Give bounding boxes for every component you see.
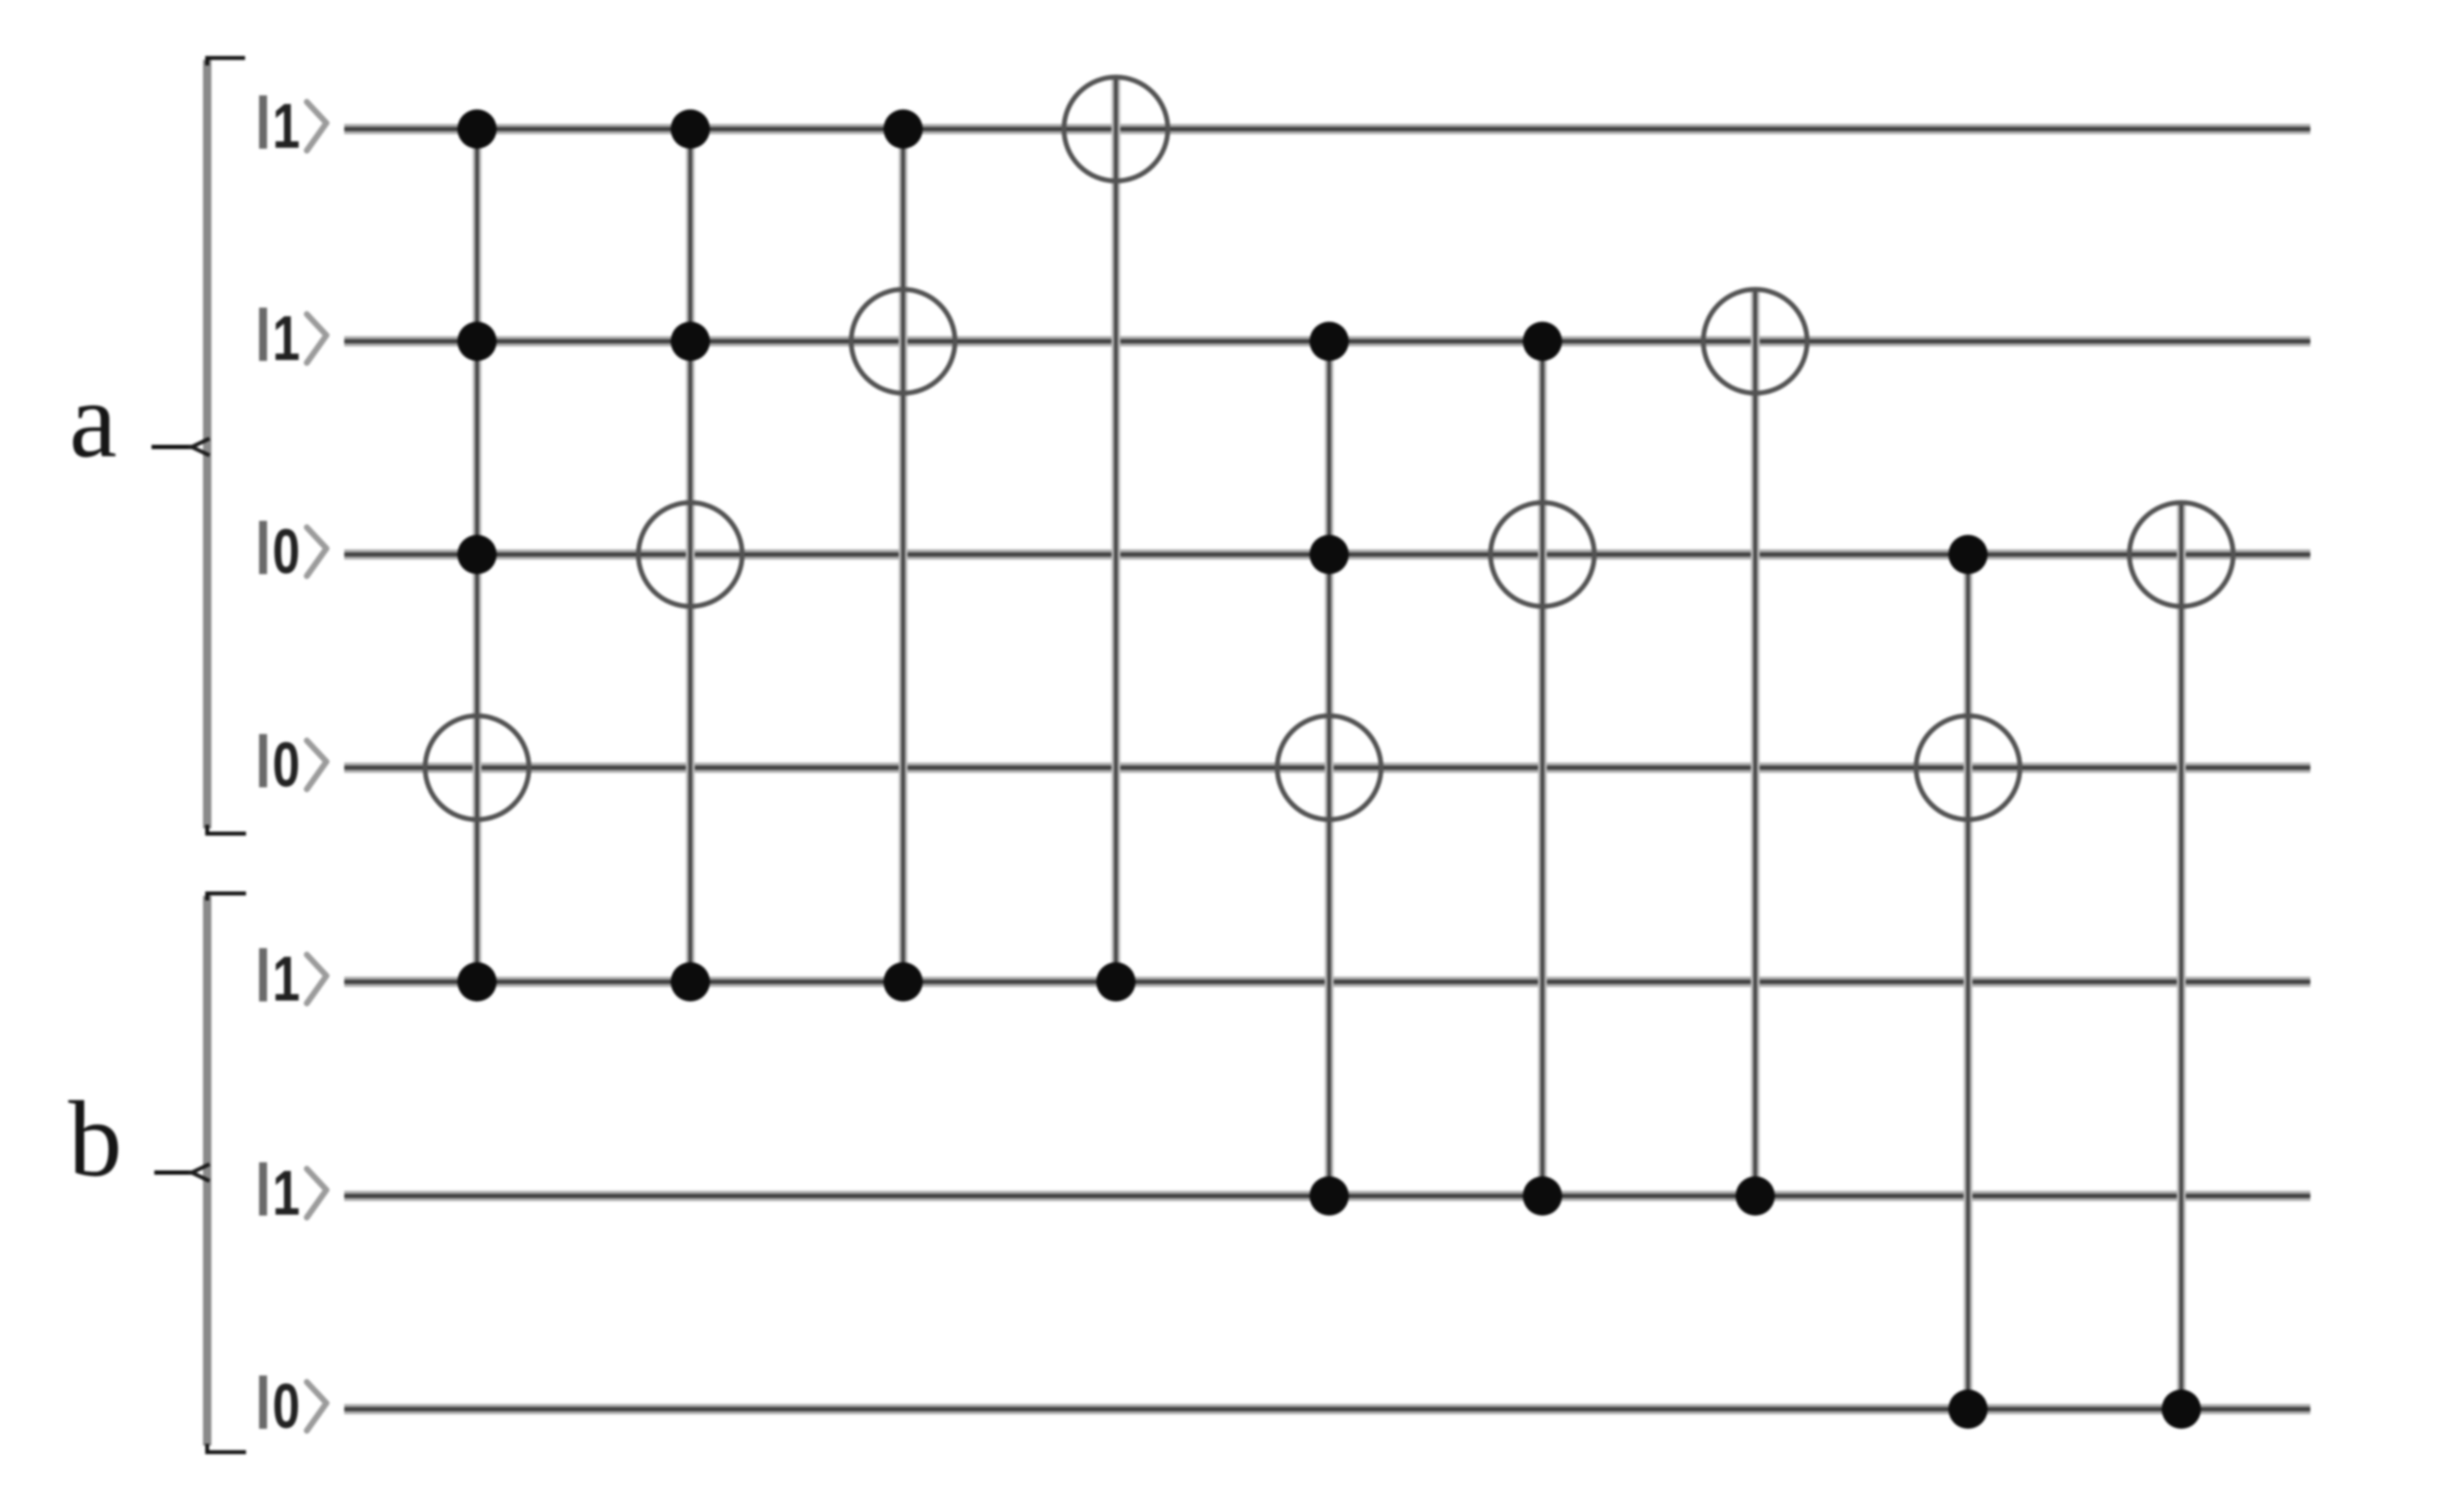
brace for register a (wires q0..q3) [152, 58, 246, 834]
svg-text:b: b [68, 1080, 123, 1199]
wire q3 (|0>) [344, 763, 2310, 773]
svg-text:a: a [69, 361, 117, 480]
gate column 1: Toffoli-type, controls q0,q1,q2,q4 target q3 [426, 109, 529, 1001]
ket label |0> on q2 [259, 516, 326, 587]
ket label |1> on q1 [259, 303, 326, 374]
wire q1 (|1>) [344, 337, 2310, 347]
svg-text:1: 1 [272, 943, 300, 1015]
ket label |1> on q0 [259, 91, 326, 162]
gate column 3: controls q0,q4 target q1 [851, 109, 955, 1001]
gate column 6: controls q1,q5 target q2 [1491, 322, 1595, 1216]
gate column 8: controls q2,q6 target q3 [1917, 535, 2020, 1429]
gate column 5: controls q1,q2,q5 target q3 [1278, 322, 1382, 1216]
gate column 4: CNOT, control q4 target q0 [1064, 75, 1168, 1001]
wire q4 (|1>) [344, 977, 2310, 987]
wire q6 (|0>) [344, 1404, 2310, 1415]
ket label |1> on q4 [259, 943, 326, 1015]
svg-text:0: 0 [272, 516, 300, 587]
svg-text:0: 0 [272, 1371, 300, 1442]
svg-text:1: 1 [272, 1158, 300, 1229]
gate column 2: controls q0,q1,q4 target q2 [639, 109, 743, 1001]
wire q2 (|0>) [344, 550, 2310, 560]
svg-text:1: 1 [272, 303, 300, 374]
wire q0 (|1>) [344, 124, 2310, 135]
svg-text:1: 1 [272, 91, 300, 162]
gate column 7: CNOT, control q5 target q1 [1703, 287, 1807, 1216]
ket label |0> on q3 [259, 729, 326, 800]
ket label |0> on q6 [259, 1371, 326, 1442]
wire q5 (|1>) [344, 1191, 2310, 1202]
ket label |1> on q5 [259, 1158, 326, 1229]
svg-text:0: 0 [272, 729, 300, 800]
brace for register b (wires q4..q6) [154, 894, 246, 1453]
gate column 9: CNOT, control q6 target q2 [2130, 500, 2234, 1429]
